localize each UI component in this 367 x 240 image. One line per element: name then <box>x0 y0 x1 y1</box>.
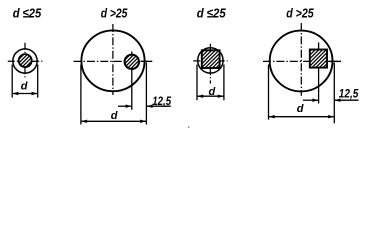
figure 1 dimension line d <box>12 93 38 95</box>
figure 2 dimension arrow 12,5 right (points left) <box>146 105 152 108</box>
figure 1 outer circle (specimen d<=25) <box>13 49 37 73</box>
figure 3 circle (specimen d<=25) <box>198 48 223 73</box>
figure 3 vertical centerline <box>209 44 211 84</box>
figure 4 vertical centerline <box>300 23 302 96</box>
figure 1 dimension arrow left <box>12 92 18 95</box>
figure 1 right extension line <box>37 65 39 98</box>
figure 3 dimension arrow right <box>218 95 224 98</box>
figure 3 dimension line d <box>197 95 224 97</box>
figure 2 dimension arrow d left <box>81 120 87 123</box>
figure 4 left extension line <box>268 65 270 120</box>
figure 4 dimension arrow 12,5 left (points right) <box>312 99 318 102</box>
figure 1 hatched inner circle (prepared area) <box>19 54 32 67</box>
figure 3 dimension arrow left <box>197 95 203 98</box>
scan speck <box>188 126 190 128</box>
svg-text:d ≤25: d ≤25 <box>197 6 227 21</box>
svg-text:d ≤25: d ≤25 <box>13 6 42 21</box>
figure 4 dimension line 12,5 right tail <box>334 99 358 101</box>
figure 2 dimension arrow 12,5 left (points right) <box>126 105 132 108</box>
figure 1 horizontal centerline <box>8 60 43 62</box>
svg-text:d: d <box>209 86 216 98</box>
figure 2 dimension line d <box>81 120 146 122</box>
svg-text:d: d <box>297 103 304 115</box>
figure 4 dimension line 12,5 left tail <box>303 99 319 101</box>
figure 4 horizontal centerline <box>263 60 341 62</box>
figure 2 horizontal centerline solid end <box>141 60 153 62</box>
figure 1 dimension arrow right <box>32 92 38 95</box>
figure 2 spot centerline vertical <box>131 52 133 110</box>
svg-text:d >25: d >25 <box>286 6 314 21</box>
figure 2 left extension line <box>80 65 82 125</box>
figure 2 hatched spot circle <box>125 55 139 69</box>
figure 1 left extension line <box>11 65 13 98</box>
figure 4 dimension arrow 12,5 right (points left) <box>334 99 340 102</box>
figure 4 dimension arrow d right <box>328 115 334 118</box>
figure 4 dimension arrow d left <box>269 115 275 118</box>
figure 1 vertical centerline <box>24 43 26 79</box>
figure 2 right extension line <box>145 63 147 125</box>
figure 2 vertical centerline <box>112 24 114 95</box>
svg-text:d: d <box>21 80 28 92</box>
figure 2 dimension line 12,5 right tail <box>146 105 170 107</box>
figure 4 dimension line d <box>269 116 335 118</box>
svg-text:d: d <box>111 110 118 122</box>
svg-text:12,5: 12,5 <box>152 94 171 108</box>
figure 2 dimension arrow d right <box>140 120 146 123</box>
figure 4 right extension line <box>333 63 335 124</box>
figure 4 hatched square spot <box>310 50 327 68</box>
figure 2 horizontal centerline <box>74 60 152 62</box>
figure 4 spot centerline vertical <box>318 43 320 104</box>
svg-text:12,5: 12,5 <box>339 86 359 100</box>
figure 4 horizontal centerline solid end <box>328 60 341 62</box>
figure 2 big circle (specimen d>25) <box>81 30 144 91</box>
figure 3 horizontal centerline <box>193 60 227 62</box>
figure 3 hatched square (prepared area) <box>202 50 220 68</box>
figure 3 left extension line <box>196 65 198 101</box>
figure 4 big circle (specimen d>25) <box>270 31 333 92</box>
figure 2 dimension line 12,5 left tail <box>118 105 132 107</box>
figure 3 right extension line <box>223 65 225 101</box>
svg-text:d >25: d >25 <box>101 6 128 21</box>
